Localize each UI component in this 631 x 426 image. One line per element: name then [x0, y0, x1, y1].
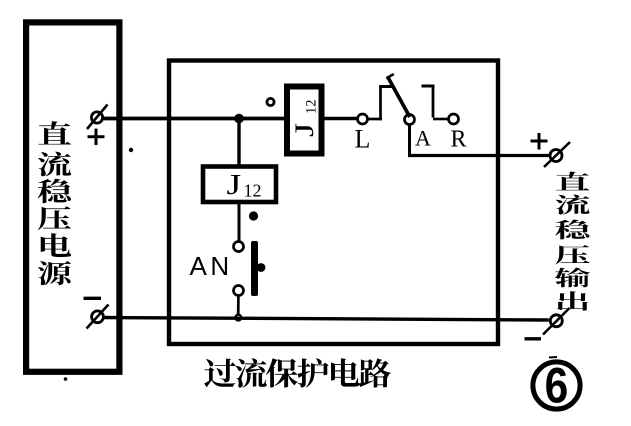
svg-text:L: L [355, 125, 371, 154]
svg-text:6: 6 [545, 357, 569, 413]
svg-text:12: 12 [244, 181, 262, 201]
pushbutton actuator bar [251, 241, 258, 296]
contact R [449, 114, 459, 124]
floating dot [249, 211, 258, 220]
terminal - (supply output minus) [92, 311, 104, 323]
wire: A down and right to + output [408, 125, 411, 156]
specks [129, 148, 133, 152]
wire: button to bottom rail [237, 296, 240, 317]
output terminal - [550, 315, 562, 327]
svg-text:J: J [227, 169, 242, 201]
terminal + (supply output plus) [91, 112, 102, 123]
svg-text:A: A [415, 126, 431, 151]
contact L [358, 114, 368, 124]
switch arm [388, 77, 410, 118]
figure number circled 6 [533, 362, 580, 409]
wire: contact box to L contact [324, 117, 358, 120]
label 直流稳压输出 (vertical) [555, 172, 590, 311]
relay coil box J12 [203, 167, 276, 203]
junction ring on bottom rail [235, 315, 241, 321]
power supply box (DC regulated source) [26, 22, 119, 371]
wire: junction down to relay coil [237, 119, 240, 167]
junction node on top rail [234, 114, 244, 124]
contact A [405, 115, 415, 125]
wire: coil to pushbutton [238, 204, 241, 242]
protection circuit dashed frame [169, 61, 498, 345]
relay contact box J12 (rotated label) [287, 87, 322, 154]
small indicator circle [267, 98, 274, 105]
pushbutton AN top contact [234, 242, 244, 252]
svg-text:12: 12 [304, 100, 320, 115]
bottom rail wire [102, 318, 549, 321]
fixed contact bracket R [422, 85, 435, 88]
svg-text:R: R [451, 127, 467, 153]
wire L to pivot post [368, 118, 382, 121]
pushbutton AN bottom contact [234, 286, 244, 296]
wire: top rail from + terminal to contact box [102, 117, 285, 121]
output terminal + [550, 150, 562, 162]
caption 过流保护电路 [204, 358, 391, 387]
label 直流稳压电源 (vertical) [38, 121, 71, 285]
svg-text:J: J [290, 123, 319, 137]
svg-text:AN: AN [190, 251, 233, 281]
